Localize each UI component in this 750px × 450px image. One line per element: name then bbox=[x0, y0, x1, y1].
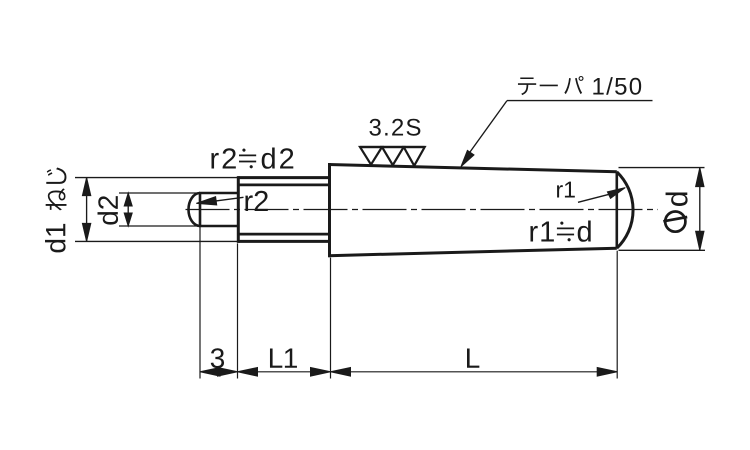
dim L1 arrowheads bbox=[238, 368, 331, 377]
label φd (rotated) bbox=[663, 192, 687, 231]
label r1 with leader bbox=[557, 185, 563, 197]
dimension d1: dimension line bbox=[86, 178, 88, 242]
r2 leader arrowhead bbox=[196, 197, 216, 205]
taper note leader arrowhead bbox=[461, 150, 474, 166]
taper note underline bbox=[507, 100, 653, 102]
big-end crown arc (r1) bbox=[617, 172, 633, 248]
label L1 bbox=[270, 349, 282, 368]
3.2S roughness label bbox=[369, 119, 380, 136]
label r2 with leader bbox=[245, 195, 252, 211]
bottom dimension line bbox=[200, 371, 617, 373]
φd arrowhead up bbox=[696, 168, 704, 187]
bottom extension line at big end bbox=[616, 251, 618, 379]
d1 arrowhead down bbox=[82, 223, 90, 241]
label d2 (rotated) bbox=[98, 196, 119, 225]
label r2≒d2 bbox=[211, 147, 293, 168]
label r1≒d bbox=[530, 220, 590, 241]
d1 arrowhead up bbox=[82, 178, 90, 196]
centerline of pin axis bbox=[186, 209, 659, 211]
dim L arrowheads bbox=[331, 368, 618, 377]
thread section outline (L1, d1 thread) bbox=[238, 176, 329, 243]
dim 3 arrowheads bbox=[200, 368, 238, 377]
dimension d2: dimension line bbox=[127, 193, 129, 226]
taper note leader wire bbox=[464, 101, 508, 161]
taper body outline (taper 1/50) bbox=[329, 163, 617, 257]
dimension d2: extension lines bbox=[119, 193, 199, 226]
r2 leader wire bbox=[199, 197, 244, 203]
d2 arrowhead down bbox=[124, 213, 132, 226]
label 3 bbox=[211, 348, 224, 368]
taper 1/50 note text bbox=[518, 76, 641, 95]
label L bbox=[467, 349, 479, 368]
r1 leader wire bbox=[578, 193, 613, 202]
label d1 ねじ (rotated) bbox=[45, 168, 66, 253]
bottom extension line at thread start bbox=[237, 243, 239, 378]
dimension φd: dimension line bbox=[699, 168, 701, 251]
dimension d1: extension lines bbox=[75, 178, 238, 242]
r1 leader arrowhead bbox=[607, 188, 625, 199]
tip dome (rounded end r2) bbox=[189, 193, 201, 226]
tip cylinder outline (3mm pilot) bbox=[199, 193, 238, 226]
dimension φd: extension lines bbox=[619, 168, 706, 251]
d2 arrowhead up bbox=[124, 193, 132, 206]
bottom extension line at taper start bbox=[330, 258, 332, 379]
thread root lines bbox=[238, 185, 329, 234]
surface finish symbol 3.2S triangles bbox=[360, 147, 425, 166]
φd arrowhead down bbox=[696, 231, 704, 250]
bottom extension line at pilot start bbox=[199, 226, 201, 379]
